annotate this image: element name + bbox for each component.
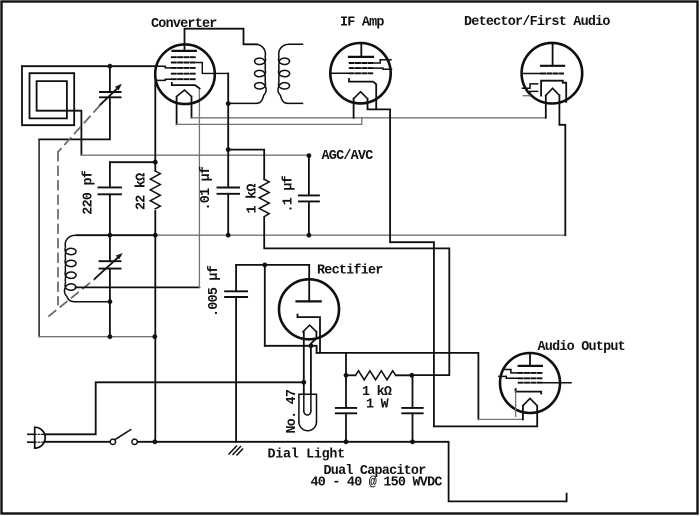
dual capacitor section 1 top lead: [345, 375, 347, 408]
IF amp heater: [354, 92, 368, 99]
svg-text:1 W: 1 W: [366, 398, 390, 413]
svg-text:AGC/AVC: AGC/AVC: [322, 149, 374, 164]
converter heater: [177, 90, 192, 97]
wire 220pf top to grid line: [110, 161, 155, 163]
wire B+ to audio output cathode: [317, 353, 479, 420]
IF amp plate lead: [360, 43, 362, 57]
IF amp tube envelope U2: [330, 43, 390, 103]
wire osc grid resistor top: [228, 150, 264, 180]
heater bus B: [177, 118, 362, 125]
audio output cathode: [516, 389, 542, 394]
node IF primary return: [226, 101, 231, 106]
audio output heater left leg: [522, 406, 524, 420]
wire oscillator coil tap to converter cathode: [76, 286, 200, 288]
variable capacitor C1b plates: [100, 261, 121, 268]
wire 22k bottom down to switch rail: [154, 211, 156, 442]
dual capacitor section 2 bottom lead: [412, 413, 414, 442]
wire bottom ground rail: [137, 442, 567, 502]
wire .005 cap top / rectifier plate feed: [236, 264, 309, 266]
rectifier plate: [297, 300, 321, 302]
svg-text:No. 47: No. 47: [285, 389, 300, 433]
detector tube envelope U3: [522, 43, 583, 104]
converter osc grid lead: [155, 79, 172, 80]
converter tube envelope U1: [155, 44, 215, 104]
wire rail y235 left part: [77, 234, 156, 236]
wire rail y235 gray part to detector heater: [156, 234, 565, 236]
svg-text:22 kΩ: 22 kΩ: [135, 173, 150, 210]
node osc rail right: [152, 334, 157, 339]
rectifier filament lead left: [303, 332, 305, 394]
node .1uf rail: [307, 233, 312, 238]
dial lamp filament: [304, 394, 311, 411]
svg-text:.005 µf: .005 µf: [207, 265, 222, 317]
node osc rail left: [108, 334, 113, 339]
audio output plate lead: [529, 353, 531, 366]
wire AC plug to dial light: [45, 382, 304, 434]
variable capacitor C1b arrow: [95, 256, 120, 279]
svg-text:Rectifier: Rectifier: [317, 264, 383, 279]
node AVC: [307, 153, 312, 158]
loop antenna spiral: [22, 66, 81, 155]
wire 1k bottom to B+ filtered node: [264, 218, 449, 376]
svg-text:IF Amp: IF Amp: [340, 16, 384, 31]
audio output grids: [519, 373, 542, 383]
wire IF primary return vertical: [227, 73, 229, 187]
heater bus A: [192, 117, 546, 119]
audio output tube envelope U5: [500, 353, 560, 413]
switch S1 contacts: [110, 439, 137, 444]
audio output screen stub: [503, 370, 519, 373]
converter signal grid lead: [154, 66, 171, 68]
resistor 22k zigzag: [150, 171, 160, 209]
capacitor .01uf bottom lead: [227, 194, 229, 235]
svg-text:Converter: Converter: [151, 17, 217, 32]
dial lamp bulb envelope: [299, 394, 317, 422]
dual capacitor section 1 plates: [336, 408, 356, 413]
IF amp plate: [349, 56, 373, 58]
audio output grid3 lead right: [542, 382, 572, 384]
capacitor 220pf top lead: [109, 162, 111, 187]
node .01uf rail: [226, 233, 231, 238]
node antenna/C1a: [108, 64, 113, 69]
node rectifier plate wire: [262, 263, 267, 268]
node 22k bottom rail: [153, 233, 158, 238]
capacitor .005uf top lead: [235, 265, 237, 291]
dual capacitor section 2 plates: [402, 408, 422, 413]
node cap2 ground: [410, 439, 415, 444]
node dial light feed: [301, 380, 306, 385]
oscillator coil L2: [64, 235, 109, 302]
wire AC return to switch: [44, 441, 110, 443]
wire AVC bus: [81, 154, 309, 156]
rectifier heater: [303, 325, 317, 332]
detector plate lead: [552, 43, 554, 66]
wire filament to B+: [265, 346, 317, 353]
IF amp screen grid stub: [372, 60, 391, 63]
svg-text:.01 µf: .01 µf: [199, 166, 214, 210]
detector plate: [541, 65, 564, 67]
detector diode plate 2: [530, 91, 538, 95]
dashed tuning gang link: [49, 106, 100, 316]
IF transformer secondary coil: [278, 44, 303, 103]
IF amp heater left leg: [353, 99, 355, 118]
IF amp suppressor stub: [372, 68, 391, 69]
resistor 1k 1W right lead: [396, 374, 412, 376]
converter heater legs: [177, 97, 192, 125]
converter grids g1-g5: [172, 57, 197, 79]
svg-text:Audio Output: Audio Output: [538, 340, 625, 355]
detector cathode: [541, 81, 566, 102]
IF transformer primary coil: [228, 44, 266, 103]
node 220pf/22k grid: [153, 160, 158, 165]
rectifier tube envelope U4: [279, 279, 339, 339]
capacitor .1uf plates: [299, 195, 319, 201]
wire left drop to oscillator rail: [38, 139, 40, 336]
rectifier cathode: [298, 315, 321, 353]
AC plug prongs: [28, 434, 35, 442]
wire C1a bottom to left drop: [39, 97, 110, 139]
svg-text:Detector/First Audio: Detector/First Audio: [464, 15, 610, 30]
detector grid lead: [522, 73, 542, 75]
switch S1 lever: [115, 430, 131, 440]
rectifier filament lead right: [311, 332, 317, 394]
node 220pf bottom rail: [108, 233, 113, 238]
svg-text:40 - 40 @ 150 WVDC: 40 - 40 @ 150 WVDC: [311, 476, 443, 491]
detector grid: [541, 73, 563, 75]
detector heater left leg: [545, 95, 547, 117]
node filament B+: [309, 343, 314, 348]
capacitor 220pf plates: [99, 187, 122, 194]
capacitor .01uf plates: [218, 188, 240, 194]
variable capacitor C1b bottom lead: [109, 269, 111, 337]
variable capacitor C1b (osc) top lead: [109, 235, 111, 261]
wire converter plate to IF transformer primary: [185, 29, 257, 51]
detector diode plate 1: [523, 84, 538, 88]
svg-text:.1 µf: .1 µf: [281, 175, 296, 212]
node switch rail: [152, 439, 157, 444]
node cap1 ground: [344, 439, 349, 444]
converter anode-grid lead to IF primary return: [197, 63, 229, 74]
chassis ground symbol: [229, 446, 243, 455]
node filter resistor right: [409, 373, 414, 378]
capacitor .1uf top lead: [308, 156, 310, 196]
wire detector heater right to rail: [559, 95, 565, 235]
node osc coil bottom: [108, 299, 113, 304]
dual capacitor section 2 top lead: [412, 375, 414, 408]
detector heater: [546, 88, 560, 95]
wire oscillator ground rail: [39, 336, 155, 338]
capacitor 220pf bottom lead: [109, 194, 111, 235]
svg-text:220 pf: 220 pf: [82, 170, 97, 214]
resistor 1k zigzag: [259, 179, 269, 216]
svg-text:1 kΩ: 1 kΩ: [246, 184, 261, 214]
svg-text:Dial Light: Dial Light: [268, 448, 345, 463]
resistor 22k top lead: [154, 81, 156, 172]
wire dial light drop: [264, 265, 266, 346]
dual capacitor section 1 bottom lead: [345, 413, 347, 442]
variable capacitor C1a plates: [100, 92, 121, 97]
variable capacitor C1a (tuning) top lead: [109, 66, 111, 92]
variable capacitor C1a arrow: [100, 87, 120, 106]
IF amp control grid lead: [331, 72, 350, 74]
AC plug body: [35, 427, 46, 448]
resistor 1k 1W zigzag: [356, 371, 396, 380]
rectifier plate lead: [308, 265, 310, 302]
capacitor .005uf plates: [225, 291, 247, 297]
resistor 1k 1W left feed: [345, 353, 347, 375]
converter cathode: [172, 83, 200, 89]
audio output plate: [519, 365, 542, 367]
IF amp grids: [350, 63, 373, 73]
audio output control grid stub: [499, 376, 519, 378]
converter plate: [173, 50, 196, 52]
wire antenna top to converter grid: [22, 65, 154, 67]
capacitor .005uf bottom lead to ground rail: [235, 297, 237, 442]
capacitor .1uf bottom lead: [308, 201, 310, 235]
node osc grid resistor: [226, 147, 231, 152]
IF amp cathode: [349, 79, 376, 109]
wire IF amp heater to audio output heater chain: [368, 99, 538, 427]
audio output heater: [523, 398, 537, 405]
node filter resistor left: [344, 373, 349, 378]
